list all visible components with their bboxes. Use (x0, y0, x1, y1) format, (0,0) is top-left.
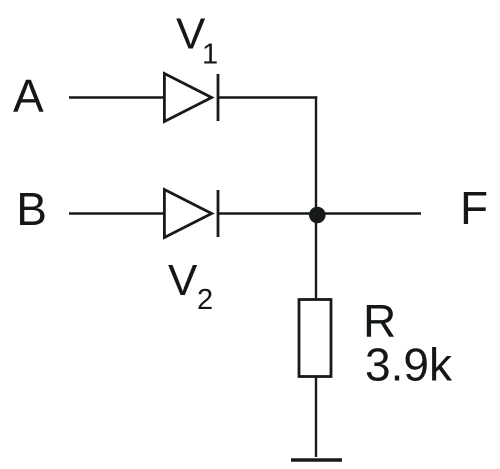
svg-text:1: 1 (202, 39, 218, 71)
svg-text:2: 2 (197, 284, 213, 316)
svg-text:A: A (13, 70, 44, 122)
svg-text:B: B (16, 183, 47, 235)
svg-text:V: V (168, 256, 198, 305)
svg-text:F: F (460, 182, 488, 234)
svg-text:3.9k: 3.9k (365, 339, 453, 391)
